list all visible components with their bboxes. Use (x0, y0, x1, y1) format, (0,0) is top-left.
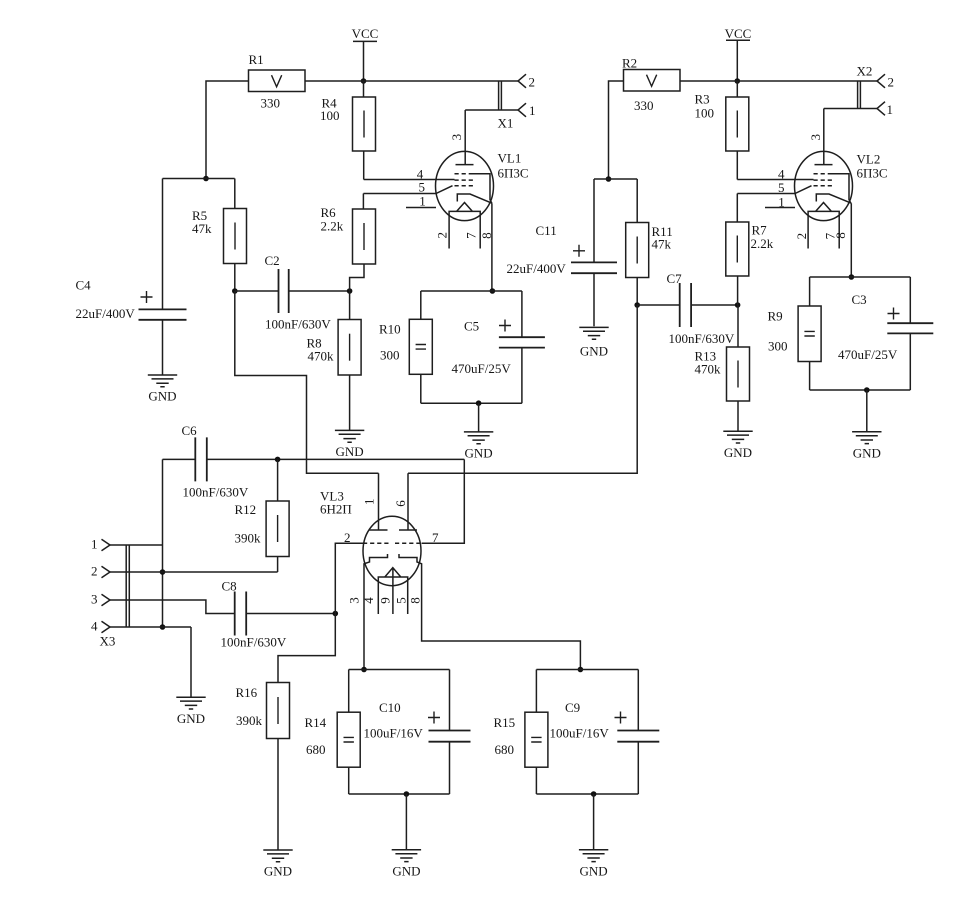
svg-text:R9: R9 (768, 309, 783, 324)
svg-text:C7: C7 (667, 271, 683, 286)
plus sign C11 (573, 245, 585, 257)
svg-text:470uF/25V: 470uF/25V (838, 347, 898, 362)
wire RC bottom rail (810, 389, 911, 391)
tube VL2 envelope (795, 151, 853, 220)
wire R14/C10 top rail (349, 669, 450, 671)
resistor R14 (337, 670, 360, 795)
svg-text:100nF/630V: 100nF/630V (221, 635, 287, 650)
svg-text:390k: 390k (236, 713, 263, 728)
ground under R8 (335, 430, 364, 459)
resistor R9 (798, 277, 821, 390)
resistor R4 (353, 81, 376, 180)
wire C2 node to VL3 pin1 (long route) (235, 291, 379, 473)
connector X1 contact 1 (518, 103, 526, 117)
ground under C9 (579, 794, 608, 879)
svg-text:GND: GND (853, 446, 881, 461)
svg-text:R10: R10 (379, 322, 401, 337)
svg-text:R1: R1 (249, 52, 264, 67)
svg-text:VL1: VL1 (498, 151, 522, 166)
plus sign C10 (428, 712, 440, 724)
svg-text:VL2: VL2 (857, 152, 881, 167)
ground under X3 (176, 697, 205, 726)
capacitor C4 (139, 179, 187, 376)
svg-text:GND: GND (580, 344, 608, 359)
svg-text:470uF/25V: 470uF/25V (452, 361, 512, 376)
capacitor C3 (887, 277, 933, 390)
wire node to C4 and R5 (163, 178, 235, 180)
resistor R7 (726, 194, 749, 306)
svg-text:2: 2 (529, 75, 536, 90)
wire node to C11 and R11 (594, 178, 637, 180)
wire VCC node to X2 pin2 (737, 80, 877, 82)
VL1 beam plates (dashed) connected to cathode (455, 174, 492, 204)
svg-text:C8: C8 (222, 579, 237, 594)
node VCC1 junction (361, 78, 367, 84)
VL2 control grid (dashed) (814, 185, 835, 187)
node VCC2 junction (735, 78, 741, 84)
VL3 cathode 2 (399, 554, 580, 670)
svg-text:R3: R3 (695, 92, 710, 107)
svg-text:1: 1 (91, 537, 98, 552)
wire RC bottom rail (421, 402, 522, 404)
svg-text:100uF/16V: 100uF/16V (364, 726, 424, 741)
resistor R3 (726, 81, 749, 180)
svg-text:1: 1 (529, 103, 536, 118)
VL3 cathode 1 (364, 554, 388, 670)
VL1 cathode (457, 194, 492, 291)
VL1 control grid (dashed) (455, 185, 476, 187)
node bus/pin4 (160, 624, 166, 630)
wire R1 left down to node (206, 81, 249, 179)
resistor R6 (350, 194, 376, 292)
svg-text:8: 8 (833, 232, 848, 239)
wire VL2 pin4 (screen grid) (737, 179, 813, 181)
connector X3 contact 3 (102, 594, 111, 606)
node R2/C11/R11 (606, 176, 612, 182)
svg-text:3: 3 (91, 592, 98, 607)
svg-text:X3: X3 (100, 634, 116, 649)
VL3 grid 2 (dashed) (395, 542, 422, 544)
svg-text:C10: C10 (379, 700, 401, 715)
wire cathode RC top rail (810, 276, 911, 278)
svg-text:300: 300 (768, 339, 788, 354)
VL2 cathode (816, 194, 851, 277)
resistor R11 (626, 179, 649, 305)
plus sign C3 (888, 308, 900, 320)
svg-text:330: 330 (261, 96, 281, 111)
svg-text:330: 330 (634, 98, 654, 113)
svg-text:GND: GND (264, 864, 292, 879)
wire VL1 pin5 (control grid) (363, 186, 452, 194)
node at R5 top rail (203, 176, 209, 182)
ground under C4 (148, 375, 177, 404)
capacitor C6 (195, 437, 207, 481)
node VL3 cathode1 to R14 rail (361, 667, 367, 673)
stub VL1 pin1 (406, 207, 436, 209)
node C2 left (232, 288, 238, 294)
VL3 grid 1 (dashed) (363, 542, 389, 544)
ground under R16 (263, 850, 292, 879)
svg-text:R16: R16 (236, 685, 258, 700)
wire R2 left down to node (609, 81, 624, 179)
capacitor C2 (235, 269, 350, 313)
svg-text:GND: GND (580, 864, 608, 879)
svg-text:GND: GND (336, 444, 364, 459)
svg-text:2: 2 (794, 233, 809, 240)
VL3 anode 1 lead (370, 473, 388, 530)
wire VL2 pin5 (control grid) (737, 186, 811, 194)
capacitor C7 (637, 283, 737, 327)
svg-text:680: 680 (306, 742, 326, 757)
capacitor C10 (429, 670, 471, 795)
node C10 ground (404, 791, 410, 797)
ground under C11 (579, 327, 608, 358)
resistor R12 (266, 459, 289, 572)
svg-text:100: 100 (320, 108, 340, 123)
connector X3 contact 4 (102, 621, 111, 633)
svg-text:C3: C3 (852, 292, 867, 307)
svg-text:100nF/630V: 100nF/630V (265, 317, 331, 332)
resistor R8 (338, 291, 361, 430)
svg-text:6Н2П: 6Н2П (320, 502, 352, 517)
svg-text:R14: R14 (305, 715, 327, 730)
node VL3 cathode2 to R15 rail (578, 667, 584, 673)
wire X3 pin4 to ground (110, 627, 191, 697)
wire X1 pin1 to VL1 anode (465, 109, 518, 111)
svg-text:C5: C5 (464, 319, 479, 334)
svg-text:47k: 47k (652, 237, 672, 252)
svg-text:C11: C11 (536, 223, 557, 238)
wire node down to R16 (278, 614, 335, 683)
resistor R2 (624, 70, 681, 92)
svg-text:1: 1 (887, 102, 894, 117)
VL1 screen grid (dashed) (455, 179, 475, 181)
tube VL3 envelope (363, 516, 421, 585)
svg-text:4: 4 (91, 619, 98, 634)
svg-text:VCC: VCC (725, 26, 752, 41)
ground under C3 (852, 390, 881, 461)
wire R1 right to VCC node (305, 80, 364, 82)
svg-text:9: 9 (378, 597, 393, 604)
svg-text:X2: X2 (857, 64, 873, 79)
svg-text:C4: C4 (76, 278, 92, 293)
capacitor C9 (617, 670, 659, 795)
resistor R16 (267, 683, 290, 851)
wire node down to VL3 pin6 riser (408, 305, 637, 473)
node bus/pin2 (160, 569, 166, 575)
svg-text:100nF/630V: 100nF/630V (183, 485, 249, 500)
svg-text:470k: 470k (695, 362, 722, 377)
svg-text:5: 5 (394, 597, 409, 604)
node C7/R7/R13 (735, 302, 741, 308)
capacitor C11 (571, 179, 617, 326)
VL2 heater (808, 203, 839, 249)
svg-text:GND: GND (392, 864, 420, 879)
ground under R13 (723, 431, 752, 460)
ground under C10 (392, 794, 421, 879)
wire X3 ground bus vertical (162, 459, 164, 627)
wire VL1 pin4 (screen grid) (364, 179, 455, 181)
svg-text:7: 7 (464, 232, 479, 239)
wire R15/C9 top rail (536, 669, 638, 671)
resistor R15 (525, 670, 548, 795)
svg-text:2: 2 (344, 530, 351, 545)
svg-text:GND: GND (148, 389, 176, 404)
svg-text:3: 3 (808, 134, 823, 141)
node C6/R12 (275, 457, 281, 463)
node RC bottom to ground (864, 387, 870, 393)
wire node up to VL3 pin2 (335, 543, 363, 613)
VL2 anode lead pin3 (815, 109, 833, 165)
svg-text:GND: GND (724, 445, 752, 460)
svg-text:C2: C2 (265, 253, 280, 268)
svg-text:7: 7 (432, 530, 439, 545)
power VCC (left channel) (352, 26, 379, 81)
svg-text:100: 100 (695, 106, 715, 121)
svg-text:100uF/16V: 100uF/16V (550, 726, 610, 741)
connector X2 body (858, 81, 861, 109)
wire X3 pin2 to R12 (110, 571, 278, 573)
power VCC (right channel) (725, 26, 752, 81)
wire R15/C9 bottom rail (536, 793, 638, 795)
svg-text:5: 5 (778, 180, 785, 195)
VL1 heater (449, 203, 480, 249)
svg-text:3: 3 (347, 597, 362, 604)
svg-text:6П3С: 6П3С (498, 166, 529, 181)
wire R2 right to VCC node (680, 80, 737, 82)
connector X2 contact 1 (877, 102, 885, 116)
svg-text:X1: X1 (498, 116, 514, 131)
svg-text:2.2k: 2.2k (321, 219, 344, 234)
svg-text:R12: R12 (235, 502, 257, 517)
svg-text:R15: R15 (494, 715, 516, 730)
plus sign C9 (615, 712, 627, 724)
node R11/C7 (634, 302, 640, 308)
VL3 anode 2 lead (399, 473, 417, 530)
wire R14/C10 bottom rail (349, 793, 450, 795)
VL3 heater (378, 568, 407, 614)
svg-text:22uF/400V: 22uF/400V (76, 306, 136, 321)
ground under C5 (464, 403, 493, 460)
node VL2 cathode rail (849, 274, 855, 280)
plus sign C5 (499, 320, 511, 332)
svg-text:1: 1 (419, 193, 426, 208)
svg-text:1: 1 (362, 498, 377, 505)
svg-text:2: 2 (435, 232, 450, 239)
svg-text:GND: GND (177, 711, 205, 726)
svg-text:680: 680 (495, 742, 515, 757)
wire X2 pin1 to VL2 anode (824, 108, 877, 110)
connector X1 contact 2 (518, 74, 526, 88)
wire X3 pin1 to C6 (110, 544, 163, 546)
wire X3 pin3 to C8 (110, 600, 235, 614)
svg-text:1: 1 (778, 195, 785, 210)
svg-text:4: 4 (361, 597, 376, 604)
node C8/VL3 pin2 (333, 611, 339, 617)
svg-text:3: 3 (449, 134, 464, 141)
svg-text:2: 2 (91, 564, 98, 579)
connector X3 contact 1 (102, 539, 111, 551)
svg-text:8: 8 (408, 597, 423, 604)
svg-text:2.2k: 2.2k (751, 236, 774, 251)
svg-text:R2: R2 (622, 56, 637, 71)
wire cathode RC top rail (421, 290, 522, 292)
svg-text:VCC: VCC (352, 26, 379, 41)
connector X2 contact 2 (877, 74, 885, 88)
svg-text:470k: 470k (308, 349, 335, 364)
svg-text:5: 5 (419, 180, 426, 195)
connector X3 body (126, 545, 129, 627)
node C2 right / R6 / R8 (347, 288, 353, 294)
capacitor C8 (235, 592, 336, 636)
node RC bottom to ground (476, 400, 482, 406)
wire C6 line to VL3 pin7 riser (163, 459, 465, 543)
svg-text:100nF/630V: 100nF/630V (669, 331, 735, 346)
svg-text:GND: GND (465, 446, 493, 461)
plus sign C4 (141, 291, 153, 303)
VL2 beam plates (dashed) connected to cathode (814, 174, 851, 204)
VL1 anode lead pin3 (456, 110, 474, 165)
svg-text:6: 6 (393, 500, 408, 507)
resistor R10 (409, 291, 432, 403)
wire VCC node to X1 pin2 (364, 80, 519, 82)
svg-text:2: 2 (888, 75, 895, 90)
resistor R13 (727, 305, 750, 431)
svg-text:47k: 47k (192, 221, 212, 236)
svg-text:300: 300 (380, 348, 400, 363)
connector X3 contact 2 (102, 566, 111, 578)
resistor R5 (224, 179, 247, 292)
svg-text:8: 8 (479, 232, 494, 239)
svg-text:390k: 390k (235, 531, 262, 546)
svg-text:C6: C6 (182, 423, 198, 438)
tube VL1 envelope (436, 151, 494, 220)
svg-text:22uF/400V: 22uF/400V (507, 261, 567, 276)
VL2 screen grid (dashed) (814, 179, 834, 181)
capacitor C5 (499, 291, 545, 403)
svg-text:6П3С: 6П3С (857, 166, 888, 181)
resistor R1 (249, 70, 306, 92)
stub VL2 pin1 (765, 207, 795, 209)
node C9 ground (591, 791, 597, 797)
connector X1 body (499, 81, 502, 110)
svg-text:C9: C9 (565, 700, 580, 715)
node VL1 cathode rail (490, 288, 496, 294)
